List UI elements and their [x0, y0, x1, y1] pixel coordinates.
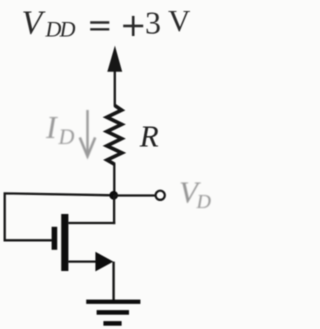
svg-text:DD: DD — [45, 17, 76, 42]
ground — [86, 300, 140, 326]
transistor Q1 gate bar — [52, 227, 58, 250]
terminal VD (open circle) — [156, 191, 165, 200]
svg-text:V: V — [168, 3, 191, 38]
label VDD = +3 V — [22, 3, 192, 42]
VDD supply arrow — [107, 46, 122, 72]
wire node down to drain — [113, 195, 115, 224]
wire feedback loop: node to gate — [5, 193, 114, 240]
wire source down to ground — [112, 262, 114, 301]
wire node to output terminal — [114, 194, 155, 196]
equals sign — [90, 23, 109, 30]
svg-text:R: R — [139, 118, 159, 153]
wire arrow shaft down to resistor top — [114, 60, 116, 107]
wire drain lead — [69, 222, 116, 224]
label VD (output voltage) — [179, 174, 212, 213]
wire source lead — [69, 260, 98, 262]
current arrow ID (gray, downward) — [80, 110, 95, 156]
transistor Q1 (NMOS) channel bar — [61, 214, 68, 271]
source arrow of Q1 — [95, 252, 113, 272]
label ID (current) — [45, 109, 75, 149]
wire resistor bottom to node — [113, 164, 115, 197]
svg-text:D: D — [58, 124, 75, 149]
node A (drain node dot) — [109, 191, 118, 200]
resistor R — [107, 106, 122, 165]
svg-text:3: 3 — [145, 4, 161, 40]
svg-text:I: I — [45, 109, 58, 145]
plus sign of +3 V — [123, 16, 143, 36]
svg-text:D: D — [196, 191, 212, 213]
